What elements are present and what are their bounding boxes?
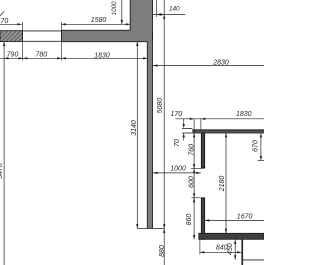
svg-text:3470: 3470 (0, 163, 4, 179)
dim 3140 vertical (x135.3) (136, 42, 138, 229)
dim 840 line (y252.3) (200, 251, 242, 253)
dim 1580 line (61.5-130, y24.3) (62, 23, 131, 25)
svg-text:3140: 3140 (131, 120, 138, 136)
arrows row y58.3 (4, 57, 148, 59)
svg-text:170: 170 (170, 111, 182, 118)
door opening lines right room top-left (182-193) (182, 128, 192, 133)
dim 1000 vertical at top (x121.8, y0-24.3) (121, 0, 123, 24)
dim 450 vertical (x235.7) (234, 239, 236, 260)
extension tick y197.8 (192, 197, 202, 199)
top wall solid segment (61.5-152.5) (62, 30, 153, 41)
extension line x61.5 (opening right) (61, 22, 63, 61)
right room partition wall segment A (201.3-204.7, y133-167.6) (201, 133, 204, 168)
svg-text:760: 760 (189, 144, 196, 156)
dim 140 line (y14.5) (153, 13, 186, 15)
svg-text:860: 860 (186, 214, 193, 226)
dim 1670 line (y220.4) (205, 219, 264, 221)
lower wall line bottom-right (y260) (243, 259, 264, 261)
svg-text:450: 450 (227, 243, 234, 255)
dim 880 vertical (x164.3, y227.5-265) (163, 229, 165, 265)
step wall going down at x242 (y239-265) (241, 239, 243, 265)
dim 5080 vertical long line (x164.3, y0-227.5) (163, 0, 165, 229)
thick vertical wall above (130-152.5, y0-31) (130, 0, 152, 32)
dim 2830 line (y65.6) (153, 64, 264, 66)
svg-text:1830: 1830 (236, 111, 252, 118)
dim 1000 middle line (y172.9) (153, 172, 201, 174)
extension x200.9 (y118.8-130) (200, 119, 202, 130)
svg-text:600: 600 (189, 176, 196, 188)
extension x199.9 (y239-254) (199, 239, 201, 254)
svg-text:1670: 1670 (237, 213, 253, 220)
dim 870 top-left line (y24.3) (0, 23, 22, 25)
dim 670 vertical (x260.9) (260, 133, 262, 160)
svg-text:1580: 1580 (91, 17, 107, 24)
bottom edge line of partition wall (y227.5) (137, 228, 164, 230)
window tick on right edge (y160.4) (258, 159, 264, 161)
dim row 790/780/1830 line (y58.3) (0, 57, 148, 59)
right room top wall band (193-264, y129.8-133) (192, 130, 264, 133)
window opening in top wall (22.5-61.5) (23, 31, 62, 41)
dim 3470 vertical at left edge (x4.1) (3, 42, 5, 265)
jog line of cut dimension top-left (0, 12, 4, 19)
dim row 170/1830 line (y118.8) (175, 118, 264, 120)
svg-text:880: 880 (159, 245, 166, 257)
svg-text:790: 790 (7, 51, 19, 58)
dim column 760/600/860 line (x194.1, y118.8-239) (193, 119, 195, 240)
right room bottom wall band (199-264, y235-239) (199, 233, 264, 239)
svg-text:780: 780 (35, 51, 47, 58)
svg-text:2180: 2180 (219, 176, 226, 193)
svg-text:670: 670 (252, 140, 259, 152)
wall hatched pier top-left (0,30.5)-(22.5,41.5) (0, 29, 43, 43)
extension line x22.4 (hatched pier right) (21, 22, 23, 61)
svg-text:1830: 1830 (94, 52, 110, 59)
dim 70 vertical (x183.7) (183, 119, 185, 141)
dim 2180 vertical (x225.2) (225, 133, 227, 233)
svg-text:1000: 1000 (170, 165, 186, 172)
thin partition wall left room right side (146.5-152.5, y41.5-227.5) (147, 31, 152, 229)
svg-text:140: 140 (169, 5, 180, 12)
svg-text:70: 70 (174, 139, 181, 147)
right room partition wall segment B (201.3-204.7, y197.8-239) (201, 198, 204, 240)
extension tick y168.6 (191, 168, 205, 170)
svg-text:2830: 2830 (212, 59, 229, 66)
svg-text:1000: 1000 (111, 1, 118, 15)
extension line x155.5 (y0-17) (156, 0, 158, 17)
svg-text:470: 470 (0, 18, 8, 25)
svg-text:5080: 5080 (157, 98, 164, 114)
